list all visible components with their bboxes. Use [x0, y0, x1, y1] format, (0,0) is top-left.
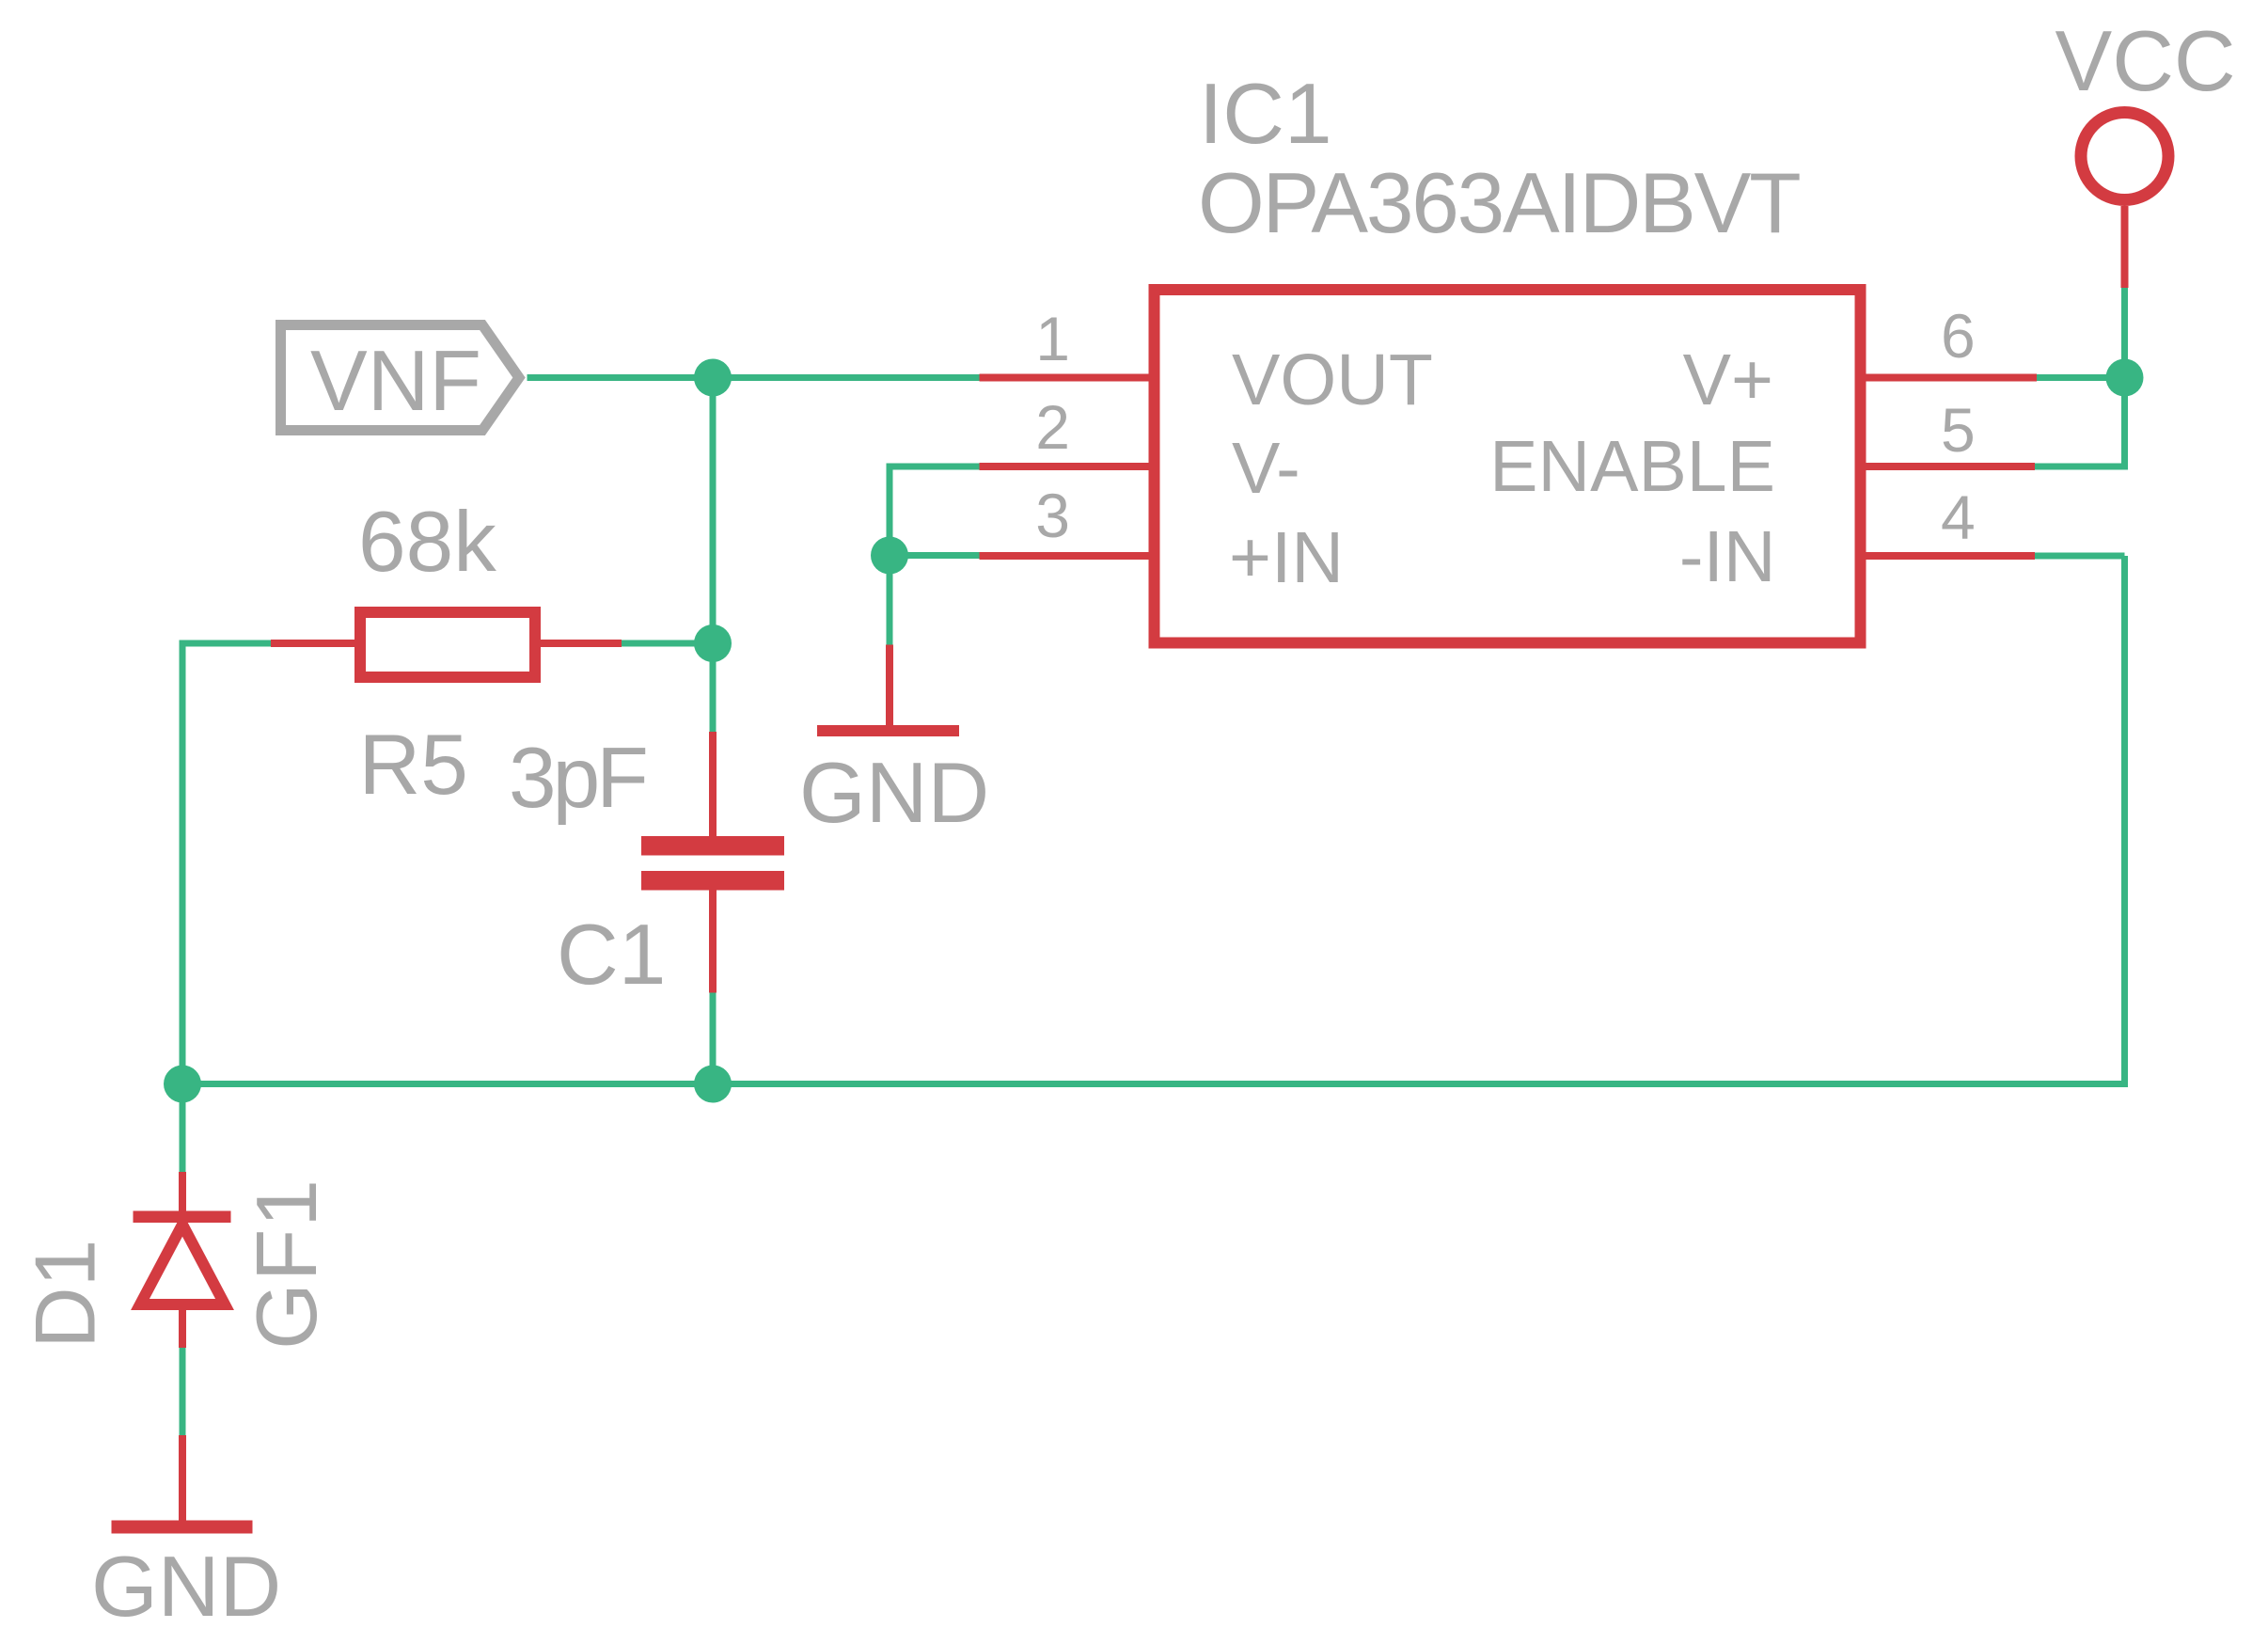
svg-text:3: 3	[1035, 481, 1070, 550]
capacitor C1 plate top	[641, 836, 784, 856]
GND1 symbol bar (middle)	[817, 725, 959, 736]
svg-text:GND: GND	[91, 1540, 281, 1635]
wire junction down to cap	[710, 643, 717, 732]
svg-text:IC1: IC1	[1199, 67, 1332, 162]
svg-text:VCC: VCC	[2055, 14, 2236, 109]
svg-text:ENABLE: ENABLE	[1489, 426, 1775, 507]
svg-text:GF1: GF1	[240, 1178, 335, 1350]
VCC supply circle	[2081, 113, 2168, 200]
wire cap bottom to rail	[710, 993, 717, 1084]
svg-text:6: 6	[1941, 301, 1976, 371]
svg-text:OPA363AIDBVT: OPA363AIDBVT	[1198, 156, 1800, 251]
GND2 symbol bar (bottom)	[112, 1521, 253, 1534]
capacitor C1 pin top	[709, 732, 717, 836]
wire pin2 net	[890, 466, 980, 556]
pin 2 stub	[980, 463, 1149, 470]
wire pin6 row green	[2037, 374, 2125, 381]
junction dot GND row3	[871, 537, 908, 575]
wire pin3 net	[890, 552, 980, 559]
svg-text:V+: V+	[1683, 340, 1773, 420]
capacitor C1 plate bottom	[641, 871, 784, 891]
junction dot rail cap	[694, 1066, 732, 1103]
capacitor C1 pin bottom	[709, 891, 717, 993]
svg-text:5: 5	[1941, 395, 1976, 465]
wire VNF junction down to resistor row	[710, 378, 717, 644]
wire resistor left corner	[182, 643, 271, 1084]
svg-text:R5: R5	[359, 718, 468, 813]
junction dot VNF	[694, 359, 732, 397]
junction dot resistor right	[694, 624, 732, 662]
pin 3 stub	[980, 552, 1149, 560]
diode D1 pin top	[179, 1172, 186, 1211]
resistor R5 pin left	[271, 640, 354, 647]
wire left column to diode	[180, 1084, 186, 1173]
pin 5 stub	[1866, 463, 2036, 470]
net VNF flag	[281, 325, 520, 431]
svg-text:V-: V-	[1232, 428, 1300, 509]
GND2 pin stub	[179, 1435, 186, 1521]
svg-text:-IN: -IN	[1679, 516, 1776, 597]
svg-text:3pF: 3pF	[509, 731, 645, 826]
diode D1 triangle	[140, 1225, 225, 1304]
junction dot VCC	[2106, 359, 2144, 397]
pin 1 stub	[980, 374, 1149, 382]
wire resistor right to junction	[622, 640, 713, 647]
svg-text:VNF: VNF	[310, 334, 481, 429]
op-amp IC1 box	[1155, 290, 1861, 643]
wire pin5 row green and up	[2035, 378, 2125, 467]
diode D1 pin bottom	[179, 1310, 186, 1348]
wire VNF to pin1 (net VNF)	[528, 374, 980, 381]
svg-text:2: 2	[1035, 392, 1070, 462]
diode D1 cathode bar	[134, 1211, 231, 1224]
pin 4 stub	[1866, 552, 2036, 560]
svg-text:D1: D1	[19, 1240, 114, 1349]
svg-text:+IN: +IN	[1229, 517, 1344, 598]
svg-text:4: 4	[1941, 482, 1976, 552]
wire pin4 row green	[2035, 553, 2125, 560]
resistor R5 body	[360, 612, 535, 677]
svg-text:GND: GND	[799, 746, 989, 841]
svg-text:1: 1	[1035, 304, 1070, 373]
svg-text:VOUT: VOUT	[1232, 340, 1433, 420]
wire diode to GND	[180, 1348, 186, 1435]
svg-text:C1: C1	[557, 908, 666, 1003]
resistor R5 pin right	[541, 640, 622, 647]
VCC pin stub	[2121, 206, 2129, 288]
wire VCC down to junction	[2121, 288, 2128, 378]
GND1 pin stub	[886, 645, 893, 726]
junction dot rail left	[164, 1066, 201, 1103]
svg-text:68k: 68k	[358, 495, 496, 590]
wire bottom rail	[182, 556, 2125, 1084]
wire junction to GND symbol	[887, 556, 893, 645]
pin 6 stub	[1866, 374, 2038, 382]
